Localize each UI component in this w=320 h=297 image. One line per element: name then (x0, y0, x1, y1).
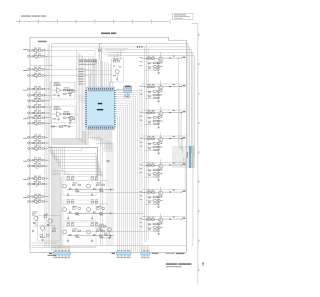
bus wire left pair2 (47, 44, 49, 247)
bus wire top C (105, 49, 192, 51)
horizontal bus bundle B staircase (51, 153, 97, 155)
jumper JW1 (136, 46, 139, 48)
jumper JW2 (141, 46, 144, 48)
input jack J6 with RC network (28, 94, 30, 96)
bus wire top A (52, 43, 189, 45)
ladder labels (79, 63, 96, 66)
output stage Q706 (SW) (142, 189, 187, 191)
dark bus wire (48, 146, 98, 148)
wire main loop bottom (30, 251, 186, 253)
decoupling RC cluster (69, 118, 71, 120)
bus wire right down (192, 52, 194, 245)
wire funnel into IC1 top (88, 57, 90, 87)
input jack J8 with RC network (28, 106, 30, 108)
reset circuit Q10 (112, 59, 124, 83)
input jack J2 with RC network (28, 55, 30, 57)
input jack J12 with RC network (28, 136, 30, 138)
wire reset to IC (112, 82, 114, 87)
wire outputs to CN301 f (184, 159, 186, 192)
long wire row2 out (75, 213, 145, 215)
power amp row 1 Q201/Q202 (67, 178, 70, 180)
input group label (23, 178, 27, 181)
input jack J3 with RC network (28, 68, 30, 70)
horizontal bus bundle A (51, 137, 83, 139)
power amp row 2 Q203/Q204 (67, 201, 70, 203)
page background (0, 0, 210, 297)
long wire row1 out (75, 192, 145, 194)
bus into amp rows (52, 169, 64, 171)
input jack J14 with RC network (28, 147, 30, 149)
wires into CN6 (53, 246, 55, 253)
wire main loop right (185, 40, 187, 252)
title block box (173, 13, 194, 19)
bus wire top B (52, 46, 190, 48)
crystal X1 (124, 85, 132, 93)
wire outputs to CN301 e (183, 157, 185, 165)
bus wire top E (108, 55, 194, 57)
input jack J11 with RC network (28, 122, 30, 124)
connector CN7 (116, 250, 119, 251)
board name label (38, 41, 46, 43)
wire single mid (30, 64, 52, 66)
input jack J4 with RC network (28, 74, 30, 76)
input jack J15 with RC network (28, 159, 30, 161)
connector CN6 (53, 250, 56, 251)
copyright text (166, 263, 178, 265)
center vertical bus band (141, 90, 143, 251)
wires crossing funnel (83, 70, 112, 72)
wire outputs to CN301 a (178, 58, 180, 147)
input group label (23, 48, 27, 51)
output stage Q701 (L) (140, 56, 143, 59)
top ruler scale (16, 21, 169, 23)
wire inner bottom (32, 246, 97, 248)
capacitor ladder C array (78, 59, 97, 61)
jumper JW3 (97, 49, 100, 51)
connector CN301 to front PCB (172, 146, 189, 148)
input jack J19 with RC network (28, 195, 30, 197)
op-amp U2 buffer (51, 82, 75, 99)
connector CN8 (140, 250, 143, 251)
decoupling RC cluster (69, 91, 71, 93)
wire outputs to CN301 c (180, 113, 182, 151)
bottom label TO P.CB (48, 255, 57, 256)
op-amp U3 buffer (51, 106, 75, 123)
wire outputs to CN301 b (179, 87, 181, 149)
input group label (23, 69, 27, 72)
input jack J1 with RC network (28, 49, 30, 51)
IC1 system control microprocessor (87, 87, 115, 130)
wire outputs to CN301 d (182, 139, 184, 153)
vertical band to CN6 (52, 150, 54, 249)
input group label (23, 137, 27, 140)
junction dots (47, 49, 50, 52)
wires into CN8 (141, 246, 143, 253)
jumper JW4 (106, 160, 109, 162)
output stage Q704 (SL) (142, 135, 187, 137)
input group label (23, 196, 27, 199)
vertical feed to ladder (98, 44, 100, 60)
long wire row3 out (75, 231, 145, 233)
wire main loop left (29, 37, 31, 252)
wires IC1 right pins (116, 89, 142, 91)
mid verticals (100, 138, 102, 246)
long wire above connectors (32, 245, 187, 247)
wire funnel IC1 bottom (88, 130, 90, 137)
input jack J18 with RC network (28, 183, 30, 185)
bus pair right col (144, 47, 146, 242)
bus wire left pair (44, 48, 46, 247)
bus wire top D (108, 51, 193, 53)
power supply Q301 regulator (38, 216, 61, 242)
input jack J10 with RC network (28, 117, 30, 119)
staircase wires top center (95, 48, 128, 50)
header model text (21, 16, 31, 17)
component row under box (51, 126, 74, 128)
output stage Q702 (R) (142, 83, 187, 85)
wire bundle row top (48, 150, 82, 152)
legend gnd line (166, 253, 175, 255)
input jack J17 with RC network (28, 177, 30, 179)
right ruler scale (197, 23, 199, 284)
input group label (23, 160, 27, 163)
amp column left rails (59, 177, 61, 248)
power amp row 3 Q205/Q206 (67, 224, 70, 226)
bus wire mid left (51, 44, 53, 251)
CN301 label (187, 152, 188, 158)
input group label (23, 89, 27, 92)
schematic title (101, 33, 110, 35)
output stage Q703 (C) (142, 109, 187, 111)
registration mark (202, 262, 204, 266)
wire IC to crystal (116, 88, 124, 90)
IC1 top pin labels (78, 68, 83, 71)
input group label (23, 117, 27, 120)
sub amp cluster Q207 (99, 226, 102, 228)
input jack J9 with RC network (28, 112, 30, 114)
wire main loop top step (168, 37, 170, 40)
input jack J20 with RC network (28, 200, 30, 202)
wire main loop top (30, 36, 169, 38)
input jack J5 with RC network (28, 88, 30, 90)
wires top jacks to ADC (48, 49, 95, 51)
output stage Q705 (SR) (142, 162, 187, 164)
output stage Q707 (S) (142, 216, 187, 218)
input jack J16 with RC network (28, 165, 30, 167)
wire band IC1 left pins (76, 51, 78, 139)
input jack J7 with RC network (28, 100, 30, 102)
input jack J13 with RC network (28, 142, 30, 144)
